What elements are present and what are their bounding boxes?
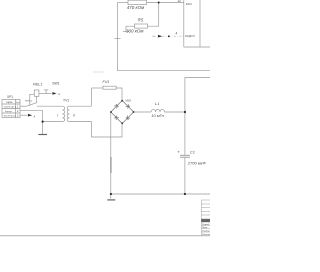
svg-text:МОДУЛ: МОДУЛ — [185, 34, 194, 38]
svg-text:Конт: Конт — [16, 102, 20, 104]
svg-text:4: 4 — [176, 32, 178, 36]
svg-text:TV1: TV1 — [63, 98, 69, 102]
svg-text:470 кОм: 470 кОм — [127, 5, 144, 10]
svg-text:Корпус: Корпус — [5, 111, 13, 113]
svg-text:~220 В 50 Гц: ~220 В 50 Гц — [3, 116, 17, 118]
svg-text:REL1: REL1 — [33, 83, 42, 87]
svg-text:КАО: КАО — [186, 2, 193, 6]
svg-text:300 кОм: 300 кОм — [126, 28, 143, 33]
svg-text:XP1: XP1 — [7, 95, 13, 99]
svg-text:Разраб.: Разраб. — [202, 224, 210, 226]
svg-text:~220 В 50 Гц: ~220 В 50 Гц — [3, 107, 17, 109]
svg-text:Изм Лист №: Изм Лист № — [202, 220, 210, 223]
svg-text:FU1: FU1 — [103, 80, 110, 84]
svg-text:II: II — [73, 114, 75, 118]
svg-text:2700 мкФ: 2700 мкФ — [187, 161, 207, 166]
svg-text:Пров.: Пров. — [202, 227, 208, 229]
svg-text:12: 12 — [178, 0, 182, 3]
svg-text:РЕЛ1.1: РЕЛ1.1 — [25, 101, 33, 103]
svg-text:10 мГн: 10 мГн — [151, 113, 164, 118]
svg-text:SW1: SW1 — [52, 81, 59, 85]
svg-text:VD6: VD6 — [125, 98, 131, 102]
svg-text:I: I — [57, 113, 58, 117]
svg-text:L1: L1 — [155, 101, 159, 106]
svg-text:Т.контр.: Т.контр. — [202, 231, 210, 233]
svg-text:R5: R5 — [138, 17, 144, 22]
svg-text:А: А — [58, 92, 60, 96]
svg-text:А: А — [34, 115, 36, 119]
svg-text:Цепь: Цепь — [7, 100, 14, 104]
svg-text:C1: C1 — [190, 149, 195, 154]
